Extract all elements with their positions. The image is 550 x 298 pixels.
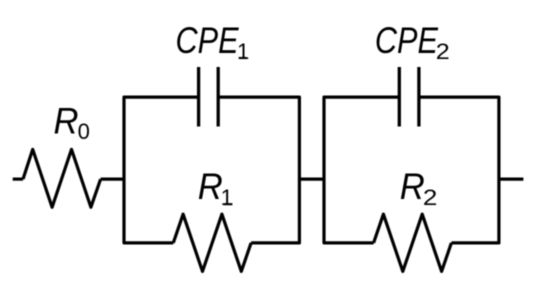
svg-text:CPE: CPE: [375, 20, 439, 61]
capacitor CPE2 left plate: [398, 67, 401, 127]
capacitor CPE1 left plate: [197, 67, 200, 127]
capacitor CPE2 right plate: [417, 67, 420, 127]
svg-text:1: 1: [221, 185, 233, 210]
resistor R0: [23, 149, 101, 207]
capacitor CPE1 right plate: [217, 67, 220, 127]
wire right output lead: [499, 178, 524, 181]
label CPE1 subscript 1 foot serif: [239, 57, 247, 59]
svg-text:0: 0: [78, 119, 90, 144]
svg-text:2: 2: [436, 39, 450, 64]
svg-text:R: R: [400, 166, 425, 207]
wire block1 left vertical and partial rails: [124, 97, 199, 243]
resistor R1: [173, 214, 251, 271]
svg-text:2: 2: [423, 185, 438, 210]
svg-text:R: R: [198, 166, 223, 207]
resistor R2: [374, 214, 452, 271]
svg-text:R: R: [54, 100, 79, 141]
wire block2 right vertical and partial rails: [419, 97, 499, 243]
svg-text:CPE: CPE: [176, 20, 240, 61]
wire node B between blocks: [299, 178, 324, 181]
wire block1 right vertical and partial rails: [218, 97, 299, 243]
svg-text:1: 1: [237, 39, 249, 64]
wire block2 left vertical and partial rails: [324, 97, 399, 243]
wire R0 to node A: [101, 178, 124, 181]
label R1 subscript 1 foot serif: [224, 203, 233, 205]
wire left input lead: [13, 178, 23, 181]
